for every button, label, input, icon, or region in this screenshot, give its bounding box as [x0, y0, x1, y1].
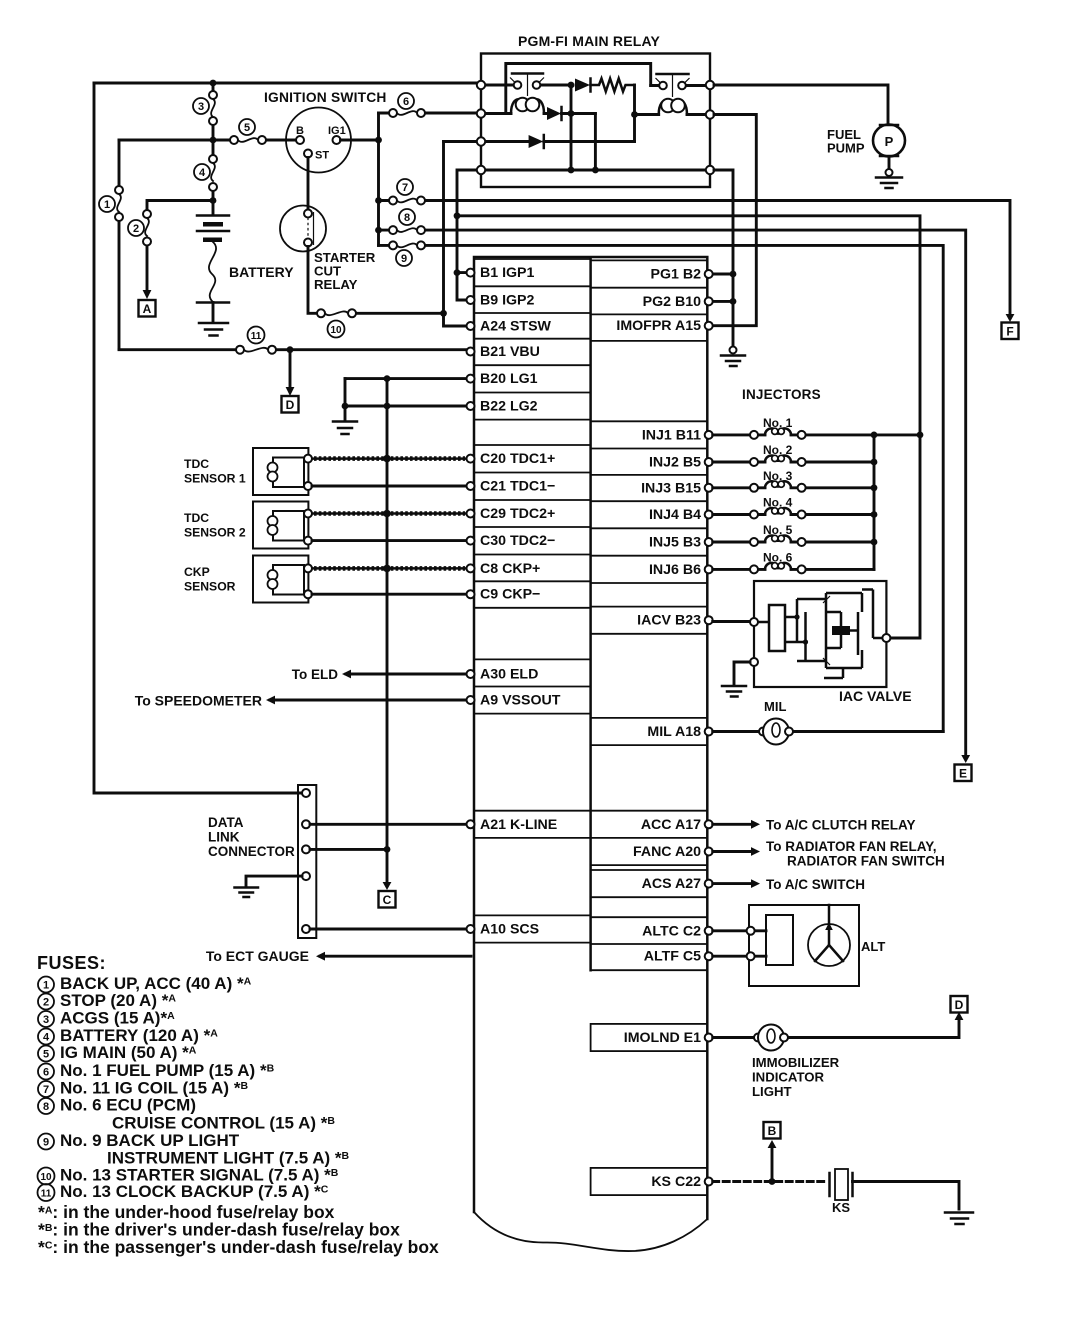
TDC sensor 2 [184, 502, 312, 549]
fuse 6 [379, 93, 478, 117]
relay terminals [477, 81, 714, 174]
fuse 9 bus to MIL [379, 241, 944, 731]
fuse 1 [99, 140, 123, 349]
wire relay to PG ground [714, 170, 733, 347]
svg-text:No. 4: No. 4 [763, 496, 793, 510]
svg-text:FUSES:: FUSES: [37, 953, 106, 973]
wire DLC pin5 to A10 SCS [310, 928, 466, 931]
injector No.1 [713, 416, 916, 439]
wire ST to starter cut relay [307, 158, 310, 210]
ECU right column cells [591, 260, 708, 341]
svg-text:INJ5 B3: INJ5 B3 [649, 535, 701, 551]
relay coil 1 [485, 98, 547, 114]
svg-text:INJECTORS: INJECTORS [742, 387, 821, 402]
svg-text:To A/C SWITCH: To A/C SWITCH [766, 877, 865, 892]
svg-text:IGNITION SWITCH: IGNITION SWITCH [264, 90, 387, 105]
node F [1002, 323, 1019, 340]
wire B20 LG1 [345, 377, 466, 380]
svg-text:ACGS (15 A)*A: ACGS (15 A)*A [60, 1009, 175, 1028]
svg-text:11: 11 [41, 1189, 52, 1200]
ECU strip outline [474, 257, 707, 1219]
svg-text:PG1 B2: PG1 B2 [651, 267, 702, 283]
svg-text:MIL A18: MIL A18 [647, 724, 701, 740]
svg-text:To RADIATOR FAN RELAY,: To RADIATOR FAN RELAY, [766, 839, 937, 854]
wire top bus [94, 82, 481, 85]
svg-text:CKP: CKP [184, 565, 210, 579]
wire IG node vertical [377, 113, 380, 245]
fuel pump [827, 125, 905, 157]
ignition switch [264, 90, 387, 173]
ECU left pin labels [480, 265, 561, 938]
svg-text:No. 1: No. 1 [763, 416, 793, 430]
wire C20 TDC1+ shielded [312, 457, 466, 460]
diode relay row2 [547, 107, 595, 120]
ground KS [945, 1213, 973, 1225]
svg-text:C21 TDC1−: C21 TDC1− [480, 479, 555, 495]
svg-text:To ECT GAUGE: To ECT GAUGE [206, 948, 309, 964]
svg-text:INJ6 B6: INJ6 B6 [649, 562, 701, 578]
svg-text:E: E [959, 767, 967, 781]
svg-text:No. 6 ECU (PCM): No. 6 ECU (PCM) [60, 1096, 196, 1115]
MIL lamp [759, 699, 793, 745]
svg-text:INJ2 B5: INJ2 B5 [649, 455, 701, 471]
node A [139, 300, 156, 317]
wire PG2 stub [713, 300, 733, 303]
svg-text:3: 3 [198, 101, 204, 113]
svg-text:4: 4 [199, 167, 206, 179]
starter cut relay [280, 206, 376, 293]
svg-text:F: F [1006, 325, 1013, 339]
wire DLC pin4 ground [235, 876, 303, 897]
wire to ECT gauge [206, 948, 471, 964]
svg-text:STOP (20 A) *A: STOP (20 A) *A [60, 991, 176, 1010]
svg-text:C30 TDC2−: C30 TDC2− [480, 533, 555, 549]
svg-text:IMOFPR A15: IMOFPR A15 [616, 318, 701, 334]
node B [764, 1122, 781, 1139]
ECU right pin labels [616, 267, 701, 1191]
ECU strip torn bottom edge [474, 1212, 707, 1251]
fuse 4 [194, 144, 217, 215]
wire C30 TDC2- [312, 539, 466, 542]
svg-text:INJ4 B4: INJ4 B4 [649, 507, 701, 523]
svg-text:No. 2: No. 2 [763, 443, 793, 457]
node top-bus battery junction [210, 80, 217, 87]
svg-text:A: A [143, 302, 152, 316]
injector No.3 [713, 469, 874, 492]
svg-text:ACS A27: ACS A27 [642, 876, 702, 892]
svg-text:C8 CKP+: C8 CKP+ [480, 561, 540, 577]
svg-text:CRUISE CONTROL (15 A) *B: CRUISE CONTROL (15 A) *B [112, 1114, 335, 1133]
svg-text:10: 10 [40, 1172, 52, 1183]
wire relay inner top rail [506, 64, 651, 114]
svg-text:2: 2 [133, 223, 139, 235]
wire IAC ground [722, 662, 750, 697]
svg-text:CONNECTOR: CONNECTOR [208, 844, 295, 859]
node E [955, 765, 972, 782]
svg-text:9: 9 [401, 253, 407, 265]
svg-text:RELAY: RELAY [314, 277, 358, 292]
svg-text:D: D [286, 398, 295, 412]
svg-text:4: 4 [43, 1032, 50, 1044]
injector No.6 [713, 550, 874, 573]
svg-text:LINK: LINK [208, 830, 240, 845]
svg-text:To ELD: To ELD [292, 667, 338, 682]
fuse 2 branch to A [128, 201, 213, 300]
svg-text:INJ3 B15: INJ3 B15 [641, 481, 701, 497]
svg-text:PG2 B10: PG2 B10 [643, 294, 701, 310]
wire IMOLND E1 [713, 1018, 959, 1038]
knock sensor KS [830, 1169, 853, 1215]
svg-text:B22 LG2: B22 LG2 [480, 399, 538, 415]
svg-text:IG1: IG1 [328, 125, 346, 137]
svg-text:MIL: MIL [764, 699, 786, 714]
wire DLC pin2 to A21 [310, 823, 466, 826]
ECU left pins [467, 269, 475, 933]
svg-text:To SPEEDOMETER: To SPEEDOMETER [135, 693, 262, 709]
svg-text:10: 10 [330, 325, 342, 336]
fuse legend 3 [38, 1009, 175, 1028]
svg-text:*C: in the passenger's under-d: *C: in the passenger's under-dash fuse/r… [38, 1237, 439, 1257]
wire FANC A20 arrow [713, 839, 945, 869]
relay contact 1 [485, 74, 573, 97]
fuse 7 bus to F [379, 179, 1015, 322]
svg-text:SENSOR: SENSOR [184, 580, 236, 594]
resistor relay [591, 79, 635, 92]
svg-text:7: 7 [402, 182, 408, 194]
wire DLC pin3 to shield [310, 848, 387, 851]
svg-text:D: D [955, 998, 964, 1012]
wire C29 TDC2+ shielded [312, 512, 466, 515]
svg-text:C20 TDC1+: C20 TDC1+ [480, 451, 555, 467]
svg-text:C9 CKP−: C9 CKP− [480, 587, 540, 603]
svg-text:8: 8 [43, 1101, 49, 1113]
PGM-FI main relay box [481, 33, 710, 187]
svg-text:B: B [768, 1124, 777, 1138]
svg-text:7: 7 [43, 1084, 49, 1096]
svg-text:INJ1 B11: INJ1 B11 [642, 428, 701, 444]
wire left border [94, 83, 302, 793]
svg-text:C29 TDC2+: C29 TDC2+ [480, 506, 555, 522]
svg-text:SENSOR 2: SENSOR 2 [184, 526, 246, 540]
CKP sensor [184, 556, 312, 603]
diode relay row1 [575, 79, 591, 92]
wire B22 LG2 [345, 379, 466, 406]
fuse 8 bus to E [379, 209, 971, 763]
fuse 3 [193, 83, 217, 136]
svg-text:B21 VBU: B21 VBU [480, 344, 540, 360]
fuse legend 7 [38, 1079, 248, 1098]
svg-text:LIGHT: LIGHT [752, 1084, 792, 1099]
wire IG1 to node [341, 139, 379, 142]
ECU IMOLND cell [591, 1024, 708, 1051]
svg-text:ST: ST [315, 150, 329, 162]
svg-text:SENSOR 1: SENSOR 1 [184, 472, 246, 486]
svg-text:To A/C CLUTCH RELAY: To A/C CLUTCH RELAY [766, 818, 916, 833]
alternator ALT [747, 905, 886, 986]
svg-text:IG MAIN (50 A) *A: IG MAIN (50 A) *A [60, 1043, 197, 1062]
wire resistor down to coil2 row [633, 85, 636, 142]
injector No.2 [713, 443, 874, 466]
wire bus to injectors and IAC [457, 216, 920, 638]
IAC valve [750, 581, 912, 704]
wire D branch arrow [289, 350, 292, 389]
svg-text:A30 ELD: A30 ELD [480, 667, 538, 683]
svg-text:No. 3: No. 3 [763, 469, 793, 483]
svg-text:PUMP: PUMP [827, 141, 865, 156]
svg-text:No. 1 FUEL PUMP (15 A) *B: No. 1 FUEL PUMP (15 A) *B [60, 1061, 275, 1080]
node D branch [287, 346, 294, 353]
svg-text:6: 6 [43, 1067, 49, 1079]
svg-text:IACV B23: IACV B23 [637, 613, 701, 629]
fuse legend 9 [38, 1131, 350, 1168]
svg-text:A24 STSW: A24 STSW [480, 319, 552, 335]
fuse legend 11 [38, 1182, 329, 1201]
svg-text:5: 5 [244, 122, 250, 134]
svg-text:No. 6: No. 6 [763, 550, 793, 564]
wire shield ground vertical to C [386, 379, 389, 884]
wire ACS A27 arrow [713, 877, 865, 892]
svg-text:ALTC C2: ALTC C2 [642, 924, 701, 940]
svg-text:TDC: TDC [184, 511, 209, 525]
svg-text:1: 1 [43, 980, 49, 992]
svg-text:B9 IGP2: B9 IGP2 [480, 293, 535, 309]
svg-text:B20 LG1: B20 LG1 [480, 371, 538, 387]
svg-text:RADIATOR FAN SWITCH: RADIATOR FAN SWITCH [787, 854, 945, 869]
svg-text:DATA: DATA [208, 815, 244, 830]
ground fuel pump [876, 157, 902, 189]
svg-text:PGM-FI MAIN RELAY: PGM-FI MAIN RELAY [518, 33, 661, 49]
wire injector common bus [873, 435, 876, 570]
svg-text:No. 9 BACK UP LIGHT: No. 9 BACK UP LIGHT [60, 1131, 240, 1150]
wire KS to ground [853, 1182, 960, 1210]
immobilizer indicator light [752, 1025, 840, 1100]
injector No.4 [713, 496, 874, 519]
diode relay row3 [485, 135, 635, 148]
svg-text:No. 5: No. 5 [763, 523, 793, 537]
wire fuse5 run B terminal [119, 119, 296, 144]
wire C9 CKP- [312, 593, 466, 596]
svg-text:ACC A17: ACC A17 [641, 817, 701, 833]
svg-text:B: B [296, 125, 304, 137]
TDC sensor 1 [184, 448, 312, 495]
wire C8 CKP+ shielded [312, 567, 466, 570]
svg-text:ALTF C5: ALTF C5 [644, 949, 701, 965]
ECU right pins [705, 270, 713, 1186]
svg-text:KS C22: KS C22 [651, 1174, 701, 1190]
svg-text:B1 IGP1: B1 IGP1 [480, 265, 535, 281]
fuse legend 1 [38, 974, 252, 993]
wire ACC A17 arrow [713, 818, 916, 833]
wire relay cross vertical [570, 85, 573, 170]
fuse legend 10 [38, 1166, 339, 1185]
fuse 11 wire to B21 VBU [119, 327, 466, 354]
ECU KS cell [591, 1168, 708, 1195]
wire B branch arrow [771, 1146, 774, 1182]
ground PG [721, 347, 745, 367]
ECU left column cells [474, 259, 591, 420]
svg-text:BATTERY: BATTERY [229, 264, 294, 280]
wire A30 ELD arrow [292, 667, 466, 682]
svg-text:IMOLND E1: IMOLND E1 [624, 1030, 701, 1046]
node D [282, 396, 299, 413]
svg-text:8: 8 [404, 212, 410, 224]
fuse legend 5 [38, 1043, 197, 1062]
svg-text:5: 5 [43, 1049, 49, 1061]
wire MIL A18 [713, 730, 944, 733]
svg-text:IAC VALVE: IAC VALVE [839, 688, 912, 704]
wire PG1 stub [713, 273, 733, 276]
node C [379, 891, 396, 908]
svg-text:2: 2 [43, 997, 49, 1009]
wire row2 down to bottom rail [594, 114, 597, 171]
wire fuel pump feed [714, 85, 888, 123]
svg-text:FANC A20: FANC A20 [633, 844, 701, 860]
svg-text:6: 6 [403, 96, 409, 108]
node D right [951, 996, 968, 1013]
svg-text:P: P [885, 134, 894, 149]
svg-text:A10 SCS: A10 SCS [480, 922, 539, 938]
svg-text:KS: KS [832, 1200, 850, 1215]
svg-text:A9 VSSOUT: A9 VSSOUT [480, 693, 561, 709]
wire relay terminal4 IGP vertical [457, 170, 477, 300]
svg-text:9: 9 [43, 1137, 49, 1149]
svg-text:TDC: TDC [184, 457, 209, 471]
relay contact 2 [651, 74, 706, 97]
wire IACV B23 [713, 620, 750, 623]
fuse legend 2 [38, 991, 176, 1010]
injector No.5 [713, 523, 874, 546]
wire ALTC C2 [713, 929, 766, 932]
svg-text:3: 3 [43, 1014, 49, 1026]
wire STSW vertical to A24 [444, 142, 467, 327]
data link connector [208, 785, 316, 938]
fuse legend 8 [38, 1096, 335, 1133]
wire relay bottom rail [485, 169, 706, 172]
wire relay terminal3 [444, 140, 478, 143]
svg-text:No. 13 CLOCK BACKUP (7.5 A) *C: No. 13 CLOCK BACKUP (7.5 A) *C [60, 1182, 329, 1201]
relay coil 2 [635, 99, 706, 115]
svg-text:11: 11 [251, 331, 262, 342]
wire KS C22 dashed [713, 1180, 826, 1183]
ground LG [333, 406, 357, 434]
wire C21 TDC1- [312, 485, 466, 488]
battery [197, 216, 294, 336]
wire relay to IMOFPR [713, 115, 757, 326]
wire ALTF C5 [713, 955, 766, 958]
fuse 10 wire STSW [308, 247, 444, 338]
svg-text:C: C [383, 893, 392, 907]
fuse legend 4 [38, 1026, 218, 1045]
svg-text:1: 1 [104, 199, 110, 211]
svg-text:IMMOBILIZER: IMMOBILIZER [752, 1055, 840, 1070]
svg-text:INDICATOR: INDICATOR [752, 1070, 825, 1085]
fuse legend 6 [38, 1061, 275, 1080]
svg-text:ALT: ALT [861, 939, 885, 954]
svg-text:A21 K-LINE: A21 K-LINE [480, 817, 557, 833]
wire A9 VSSOUT to speedometer [135, 693, 466, 709]
